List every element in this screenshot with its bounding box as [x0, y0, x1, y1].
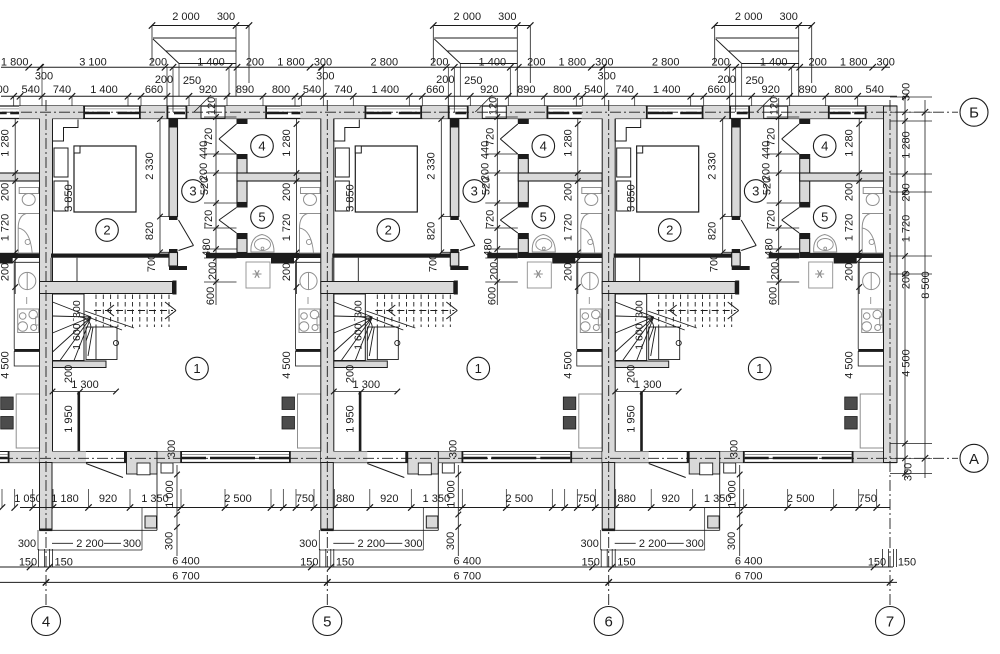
unit3 bedroom door leaf	[741, 220, 756, 246]
svg-text:750: 750	[296, 493, 314, 505]
svg-text:880: 880	[336, 493, 354, 505]
unit2 bottom wall gray piers	[321, 452, 368, 463]
unit1 stair winder box	[53, 294, 85, 361]
unit3 room label 2	[658, 219, 681, 242]
unit3 top wall door opening jambs	[763, 106, 765, 119]
svg-text:300: 300	[316, 71, 334, 83]
unit2 entrance door leaf	[367, 464, 404, 478]
grid circle 6	[594, 607, 623, 636]
unit2 porch pillar	[426, 516, 438, 528]
svg-text:720: 720	[766, 210, 778, 228]
unit2 dim 120 leader	[475, 95, 492, 112]
bottom wall outer face line	[0, 462, 897, 464]
svg-text:6 700: 6 700	[454, 571, 482, 583]
svg-text:4 500: 4 500	[901, 349, 913, 377]
svg-text:720: 720	[203, 210, 215, 228]
unit1 bedroom corner wardrobe outline	[53, 119, 79, 141]
svg-text:820: 820	[144, 222, 156, 240]
unit3 rooms 4/5 left wall	[799, 119, 810, 124]
unit1 stair winder treads	[53, 302, 92, 317]
svg-text:300: 300	[164, 532, 176, 550]
svg-text:700: 700	[709, 254, 721, 272]
unit3 corridor jamb L	[732, 266, 750, 270]
svg-text:300: 300	[445, 532, 457, 550]
bottom wall inner face line	[0, 451, 897, 453]
unit1 chairs	[282, 397, 295, 410]
svg-text:4: 4	[540, 139, 547, 154]
unit2 rooms 4/5 left wall	[518, 119, 529, 124]
unit2 room label 1	[467, 357, 490, 380]
svg-text:2 200: 2 200	[358, 538, 386, 550]
grid circle 5	[313, 607, 342, 636]
unit1 closet bottom wall	[53, 361, 107, 368]
unit2 wardrobe strip divider	[357, 258, 359, 282]
unit3 rooms chain dims	[858, 119, 860, 294]
svg-text:3: 3	[752, 184, 759, 199]
svg-text:5: 5	[540, 210, 547, 225]
svg-text:300: 300	[901, 83, 913, 101]
svg-text:300: 300	[780, 11, 798, 23]
unit1 top dim row A ticks	[37, 64, 43, 70]
svg-text:8 500: 8 500	[920, 271, 932, 299]
svg-text:720: 720	[484, 210, 496, 228]
svg-text:540: 540	[22, 84, 40, 96]
unit1 top wall gray piers	[19, 106, 83, 119]
svg-text:1 720: 1 720	[901, 215, 913, 243]
svg-text:200: 200	[770, 262, 782, 280]
unit2 porch slab edge	[333, 529, 438, 531]
svg-text:200: 200	[488, 262, 500, 280]
unit1 fridge	[246, 262, 270, 288]
unit1 kitchen sink	[300, 272, 317, 289]
svg-text:1 600 ˉ300: 1 600 ˉ300	[71, 300, 83, 350]
svg-text:1 050: 1 050	[14, 493, 42, 505]
svg-text:1 400: 1 400	[197, 57, 225, 69]
unit1 party wall at axis	[40, 106, 53, 463]
unit2 dining table	[579, 394, 602, 448]
svg-text:2: 2	[385, 223, 392, 238]
svg-text:150: 150	[868, 557, 886, 569]
unit3 stair flight dashed treads	[658, 295, 660, 328]
svg-text:890: 890	[799, 84, 817, 96]
unit0 kitchen sink	[19, 272, 36, 289]
svg-text:200: 200	[562, 263, 574, 281]
unit3 dining table	[860, 394, 883, 448]
svg-text:200: 200	[844, 183, 856, 201]
svg-text:4 500: 4 500	[844, 351, 856, 379]
unit2 hall wall	[359, 392, 362, 452]
unit2 porch party wall below	[321, 463, 334, 530]
axis A circle	[960, 444, 988, 472]
unit1 top wall window W3 (room 4)	[267, 108, 302, 110]
svg-text:2 500: 2 500	[224, 493, 252, 505]
svg-text:660: 660	[708, 84, 726, 96]
svg-text:3: 3	[189, 184, 196, 199]
unit3 top dim row A ticks	[600, 64, 606, 70]
svg-text:А: А	[969, 451, 979, 468]
svg-text:1 280: 1 280	[0, 129, 12, 157]
svg-text:300: 300	[123, 538, 141, 550]
unit0 dining table	[16, 394, 39, 448]
unit2 rooms chain dims	[577, 119, 579, 294]
unit3 stair break line	[648, 311, 697, 328]
unit1 wardrobe strip divider	[76, 258, 78, 282]
unit2 top wall gray piers	[300, 106, 364, 119]
unit3 corridor dim chain	[778, 98, 780, 305]
unit1 entrance door leaf	[86, 464, 123, 478]
unit3 bottom wall living-room window	[745, 454, 852, 456]
svg-text:2 200: 2 200	[639, 538, 667, 550]
svg-text:300: 300	[299, 538, 317, 550]
svg-text:440: 440	[198, 141, 210, 159]
svg-text:6: 6	[605, 614, 613, 631]
svg-text:1 400: 1 400	[372, 84, 400, 96]
unit1 toilet	[301, 188, 321, 194]
unit0 rooms 4/5 divider wall	[0, 173, 40, 181]
unit1 rooms 4/5 divider wall	[237, 173, 321, 181]
svg-text:700: 700	[146, 254, 158, 272]
svg-text:1 950: 1 950	[344, 405, 356, 433]
svg-text:1 720: 1 720	[562, 214, 574, 242]
unit1 room 5 door leaf	[219, 208, 237, 221]
unit1 bedroom door leaf	[179, 220, 194, 246]
unit2 bedroom right wall upper	[450, 119, 459, 217]
unit2 stair hall doorway wall piece	[487, 253, 518, 258]
svg-text:890: 890	[517, 84, 535, 96]
bottom dim 6400 line global	[0, 566, 893, 568]
unit2 corridor dim chain	[496, 98, 498, 305]
unit1 bedroom right wall lower	[169, 249, 178, 253]
svg-text:3 100: 3 100	[79, 57, 107, 69]
unit2 bottom wall entrance door jamb	[405, 452, 408, 463]
svg-text:2 000: 2 000	[172, 11, 200, 23]
svg-text:2 500: 2 500	[506, 493, 534, 505]
unit1 room label 5	[251, 206, 274, 229]
right end exterior wall	[884, 106, 898, 463]
unit3 hall wall	[640, 392, 643, 452]
svg-text:600: 600	[205, 287, 217, 305]
unit2 under-stair closet	[367, 327, 398, 360]
unit3 kitchen sink	[863, 272, 880, 289]
unit2 bedroom corner wardrobe outline	[334, 119, 360, 141]
unit1 rooms 4/5 left wall	[237, 119, 248, 124]
svg-text:1 800: 1 800	[840, 57, 868, 69]
svg-text:Б: Б	[969, 105, 979, 122]
svg-text:1 000: 1 000	[445, 480, 457, 508]
svg-text:440: 440	[479, 141, 491, 159]
svg-text:480: 480	[482, 238, 494, 256]
unit2 room 5 door leaf	[500, 208, 518, 221]
unit2 fridge	[527, 262, 551, 288]
svg-text:820: 820	[707, 222, 719, 240]
unit1 corridor jamb L	[169, 266, 187, 270]
unit2 room 4 door leaf	[500, 124, 518, 139]
svg-text:1 280: 1 280	[281, 129, 293, 157]
svg-text:200: 200	[281, 263, 293, 281]
grid circle 7	[876, 607, 905, 636]
svg-text:800: 800	[835, 84, 853, 96]
svg-text:2 000: 2 000	[735, 11, 763, 23]
unit3 top wall window W2	[731, 108, 748, 110]
svg-text:300: 300	[404, 538, 422, 550]
unit1 top dim row B ticks	[17, 93, 23, 99]
unit3 party wall at axis	[602, 106, 615, 463]
svg-text:1 950: 1 950	[63, 405, 75, 433]
unit1 room label 4	[251, 135, 274, 158]
unit3 room label 5	[813, 206, 836, 229]
svg-text:1 600 ˉ300: 1 600 ˉ300	[634, 300, 646, 350]
svg-text:1 300: 1 300	[353, 379, 381, 391]
svg-text:480: 480	[764, 238, 776, 256]
svg-text:520: 520	[199, 177, 211, 195]
svg-text:2 000: 2 000	[454, 11, 482, 23]
svg-text:3 850: 3 850	[63, 184, 75, 212]
unit1 top wall window W2	[168, 108, 185, 110]
unit2 room label 4	[532, 135, 555, 158]
unit2 stair closet top wall	[321, 282, 454, 294]
unit0 kitchen counter	[14, 261, 39, 263]
svg-text:300: 300	[729, 440, 741, 458]
unit2 rooms 4/5 divider wall	[518, 173, 602, 181]
unit2 top wall window W2	[449, 108, 466, 110]
svg-text:300: 300	[903, 463, 915, 481]
unit1 porch pillar	[145, 516, 157, 528]
unit3 wardrobe strip divider	[639, 258, 641, 282]
unit2 kitchen counter	[577, 261, 602, 263]
unit2 toilet	[582, 188, 602, 194]
unit3 stair direction arrow	[657, 310, 736, 312]
svg-text:880: 880	[618, 493, 636, 505]
svg-text:740: 740	[334, 84, 352, 96]
unit1 stair break line	[85, 311, 134, 328]
unit1 entrance step	[161, 463, 173, 473]
unit3 room label 1	[748, 357, 771, 380]
unit3 bedroom dim 820 chain	[723, 216, 740, 218]
unit1 bottom wall entrance door jamb	[124, 452, 127, 463]
unit1 top wall window W1 (bedroom)	[85, 108, 139, 110]
svg-text:200: 200	[207, 262, 219, 280]
unit3 top wall window W3 (room 4)	[830, 108, 865, 110]
svg-text:540: 540	[866, 84, 884, 96]
svg-text:1 800: 1 800	[559, 57, 587, 69]
svg-text:150: 150	[898, 557, 916, 569]
svg-text:600: 600	[486, 287, 498, 305]
unit0 kitchen fridge-top wall step	[0, 258, 13, 264]
svg-text:2 330: 2 330	[707, 152, 719, 180]
unit1 room label 3	[182, 180, 205, 203]
unit3 stair closet top wall	[602, 282, 735, 294]
svg-text:4 500: 4 500	[562, 351, 574, 379]
svg-text:520: 520	[762, 177, 774, 195]
unit1 bedside tables	[54, 148, 68, 177]
unit3 bed	[637, 146, 699, 212]
unit1 porch slab edge	[52, 529, 157, 531]
unit2 room label 3	[463, 180, 486, 203]
svg-text:200: 200	[246, 57, 264, 69]
svg-text:7: 7	[886, 614, 894, 631]
svg-text:6 400: 6 400	[735, 556, 763, 568]
svg-text:2 330: 2 330	[144, 152, 156, 180]
svg-text:200: 200	[281, 183, 293, 201]
unit2 closet bottom wall	[334, 361, 388, 368]
svg-text:1 720: 1 720	[0, 214, 12, 242]
svg-text:740: 740	[53, 84, 71, 96]
svg-text:5: 5	[258, 210, 265, 225]
unit2 corridor jamb L	[450, 266, 468, 270]
top wall inner face line	[0, 118, 897, 120]
unit2 top wall window W3 (room 4)	[548, 108, 583, 110]
svg-text:200: 200	[527, 57, 545, 69]
unit3 bedroom right wall lower	[732, 249, 741, 253]
svg-text:480: 480	[201, 238, 213, 256]
unit2 stair flight dashed treads	[376, 295, 378, 328]
unit2 bedroom bottom wall	[332, 254, 450, 258]
svg-text:920: 920	[662, 493, 680, 505]
axis B circle	[960, 98, 988, 126]
svg-text:440: 440	[761, 141, 773, 159]
unit1 washbasin	[251, 235, 274, 253]
unit3 top dim row B ticks	[580, 93, 586, 99]
unit3 fridge	[809, 262, 833, 288]
unit2 bottom wall living-room window	[463, 454, 570, 456]
unit1 stair closet top wall	[40, 282, 173, 294]
svg-text:2: 2	[666, 223, 673, 238]
svg-text:1 400: 1 400	[479, 57, 507, 69]
svg-text:300: 300	[18, 538, 36, 550]
unit1 stove	[299, 309, 320, 333]
unit2 stair direction arrow	[375, 310, 454, 312]
unit3 bottom wall entrance pier with notch	[689, 452, 720, 475]
svg-text:800: 800	[272, 84, 290, 96]
svg-text:300: 300	[447, 440, 459, 458]
svg-text:520: 520	[480, 177, 492, 195]
unit3 kitchen fridge-top wall step	[834, 258, 857, 264]
svg-text:4: 4	[258, 139, 265, 154]
unit3 bedroom bottom wall	[614, 254, 732, 258]
unit2 bedroom dim 820 chain	[441, 216, 458, 218]
unit1 stair flight dashed treads	[95, 295, 97, 328]
unit2 chairs	[563, 397, 576, 410]
unit2 washbasin	[532, 235, 555, 253]
unit2 stair winder treads	[334, 302, 373, 317]
unit2 bedroom door leaf	[460, 220, 475, 246]
svg-text:700: 700	[427, 254, 439, 272]
unit3 room 5 bottom wall	[799, 253, 883, 258]
unit2 bed	[355, 146, 417, 212]
unit2 room label 2	[377, 219, 400, 242]
svg-text:4: 4	[821, 139, 828, 154]
svg-text:920: 920	[99, 493, 117, 505]
svg-text:300: 300	[217, 11, 235, 23]
unit1 room 4 door leaf	[219, 124, 237, 139]
svg-text:4 500: 4 500	[281, 351, 293, 379]
unit2 top wall door opening jambs	[481, 106, 483, 119]
unit0 shower	[18, 214, 39, 254]
unit1 bedroom dim 820 chain	[160, 216, 177, 218]
svg-text:4 500: 4 500	[0, 351, 12, 379]
svg-text:1 280: 1 280	[562, 129, 574, 157]
unit2 entrance step	[442, 463, 454, 473]
unit2 stove	[580, 309, 601, 333]
unit3 toilet	[863, 188, 883, 194]
svg-text:200: 200	[901, 271, 913, 289]
unit3 bedroom corner wardrobe outline	[615, 119, 641, 141]
unit0 chairs	[1, 397, 14, 410]
unit3 kitchen counter	[858, 261, 883, 263]
unit3 stair hall doorway wall piece	[769, 253, 800, 258]
unit2 bottom wall entrance pier with notch	[408, 452, 439, 475]
svg-text:1 950: 1 950	[626, 405, 638, 433]
unit1 bedroom right wall upper	[169, 119, 178, 217]
svg-text:1 720: 1 720	[281, 214, 293, 242]
svg-text:300: 300	[686, 538, 704, 550]
top dim row A line	[1, 66, 890, 68]
svg-text:200: 200	[0, 263, 12, 281]
svg-text:300: 300	[166, 440, 178, 458]
svg-text:1 000: 1 000	[164, 480, 176, 508]
svg-text:2: 2	[103, 223, 110, 238]
unit0 top wall window W3 (room 4)	[0, 108, 21, 110]
unit2 shower	[581, 214, 602, 254]
unit3 under-stair closet	[649, 327, 680, 360]
top dim row B line	[1, 95, 897, 97]
axis B dash-dot line	[2, 111, 958, 113]
unit0 room 5 bottom wall	[0, 253, 40, 258]
unit1 bottom wall living-room window	[182, 454, 289, 456]
unit3 top wall window W1 (bedroom)	[648, 108, 702, 110]
bottom dim row C line	[20, 507, 890, 509]
svg-text:3 850: 3 850	[344, 184, 356, 212]
svg-text:890: 890	[236, 84, 254, 96]
svg-text:1 400: 1 400	[90, 84, 118, 96]
svg-text:1 800: 1 800	[277, 57, 305, 69]
unit2 party wall at axis	[321, 106, 334, 463]
svg-text:1 300: 1 300	[71, 379, 99, 391]
svg-text:2 200: 2 200	[76, 538, 104, 550]
unit1 bottom wall entrance pier with notch	[127, 452, 158, 475]
svg-text:300: 300	[598, 71, 616, 83]
unit1 corridor dim chain	[215, 98, 217, 305]
svg-text:660: 660	[426, 84, 444, 96]
unit2 room label 5	[532, 206, 555, 229]
bottom dim 6700 line global	[0, 581, 897, 583]
unit3 entrance canopy	[715, 25, 812, 27]
axis A dash-dot line	[2, 457, 958, 459]
unit3 porch party wall below	[602, 463, 615, 530]
svg-text:3 850: 3 850	[626, 184, 638, 212]
unit1 porch vertical dim	[176, 465, 178, 556]
unit3 chairs	[845, 397, 858, 410]
unit2 kitchen fridge-top wall step	[552, 258, 575, 264]
unit2 stair break line	[366, 311, 415, 328]
unit3 rooms 4/5 divider wall	[800, 173, 884, 181]
svg-text:300: 300	[726, 532, 738, 550]
unit3 room label 4	[813, 135, 836, 158]
unit1 stair direction arrow	[94, 310, 173, 312]
svg-text:1 000: 1 000	[727, 480, 739, 508]
svg-text:750: 750	[577, 493, 595, 505]
top wall outer face line	[0, 105, 897, 107]
unit2 bedside tables	[335, 148, 349, 177]
unit3 stair winder treads	[615, 302, 654, 317]
svg-text:920: 920	[480, 84, 498, 96]
unit0 bottom wall living-room window	[0, 454, 8, 456]
svg-text:920: 920	[762, 84, 780, 96]
vertical grid axes 4-7 dash-dot	[45, 100, 47, 606]
svg-text:300: 300	[581, 538, 599, 550]
unit1 bed	[74, 146, 136, 212]
unit2 entrance canopy	[433, 25, 530, 27]
